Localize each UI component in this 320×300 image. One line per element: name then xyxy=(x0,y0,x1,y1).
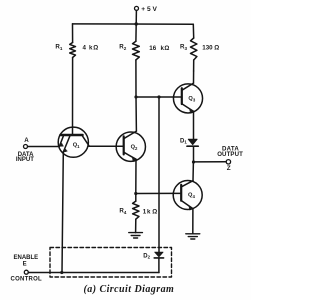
transistor Q3 (pull-up) xyxy=(173,83,202,113)
wire: R1 to Q1 base xyxy=(72,58,74,136)
wire: output node to terminal Z xyxy=(194,161,227,163)
svg-text:CONTROL: CONTROL xyxy=(11,277,42,283)
svg-text:OUTPUT: OUTPUT xyxy=(217,151,243,158)
svg-text:Q4: Q4 xyxy=(188,193,195,199)
input terminal A xyxy=(24,145,28,149)
wire: +5V terminal to rail xyxy=(135,11,137,25)
wire: rail to R2 xyxy=(135,24,137,41)
svg-text:Q2: Q2 xyxy=(131,144,138,150)
resistor R3 xyxy=(191,38,197,60)
wire: Q2 emitter down to R4 node xyxy=(135,159,137,193)
node: R2/Q2/Q3 base junction xyxy=(134,95,137,98)
svg-text:INPUT: INPUT xyxy=(16,157,34,163)
wire: R4 to ground xyxy=(135,219,137,232)
wire: Q1 second emitter down to enable line xyxy=(62,152,63,273)
resistor R1 xyxy=(70,43,76,58)
wire: D2 to enable line xyxy=(158,258,160,273)
svg-text:E: E xyxy=(23,262,27,268)
transistor Q4 (pull-down) xyxy=(173,181,202,211)
svg-text:A: A xyxy=(24,137,29,144)
svg-text:ENABLE: ENABLE xyxy=(14,255,39,261)
node: output junction xyxy=(192,160,195,163)
wire: top +5V rail xyxy=(73,23,194,25)
svg-text:16kΩ: 16kΩ xyxy=(149,45,169,52)
output terminal Z xyxy=(226,160,230,164)
wire: rail to R1 xyxy=(72,24,74,43)
diode D1 xyxy=(187,139,198,146)
dashed enable box xyxy=(50,248,172,278)
svg-text:D2: D2 xyxy=(143,253,150,259)
wire: rail to R3 xyxy=(192,24,194,38)
svg-text:1kΩ: 1kΩ xyxy=(143,208,158,215)
wire: D1 to output node xyxy=(193,146,195,162)
svg-text:Z: Z xyxy=(227,165,231,172)
+5V supply terminal xyxy=(135,6,139,10)
svg-text:R2: R2 xyxy=(119,43,126,51)
wire: enable line xyxy=(28,272,159,274)
ground (below Q4) xyxy=(186,234,200,239)
resistor R2 xyxy=(133,41,140,60)
wire: Q1 collector to Q2 base xyxy=(89,145,116,147)
wire: node to Q4 base xyxy=(136,192,174,194)
wire: Q2 collector up to node xyxy=(135,97,137,131)
node: enable / Q1 emitter junction xyxy=(60,271,63,274)
svg-text:130Ω: 130Ω xyxy=(202,45,219,52)
node: R4 / Q4 base junction xyxy=(134,192,137,195)
transistor Q2 (phase splitter) xyxy=(116,131,145,161)
svg-text:(a) Circuit Diagram: (a) Circuit Diagram xyxy=(84,284,175,295)
svg-text:R1: R1 xyxy=(55,44,62,52)
wire: Q3 emitter to D1 xyxy=(193,111,195,139)
wire: R2 to node xyxy=(135,60,137,97)
wire: output node down to Q4 collector xyxy=(192,162,194,181)
wire: node down to D2 xyxy=(158,97,160,252)
wire: Q4 emitter to ground xyxy=(192,209,194,234)
wire: R3 to Q3 collector xyxy=(193,60,195,71)
resistor R4 xyxy=(133,201,139,219)
svg-text:4kΩ: 4kΩ xyxy=(83,45,99,52)
ground (below R4) xyxy=(129,233,143,238)
svg-text:Q3: Q3 xyxy=(188,96,195,102)
svg-text:Q1: Q1 xyxy=(73,142,80,148)
svg-text:D1: D1 xyxy=(180,138,187,144)
wire: node to R4 xyxy=(135,194,137,202)
svg-text:R4: R4 xyxy=(119,208,126,216)
wire: A to Q1 emitter xyxy=(28,146,60,148)
enable terminal E xyxy=(24,270,28,274)
svg-text:+ 5 V: + 5 V xyxy=(141,6,157,13)
svg-text:R3: R3 xyxy=(180,43,187,51)
diode D2 xyxy=(154,252,163,258)
transistor Q1 (two-emitter input) xyxy=(58,127,89,157)
wire: node to Q3 base xyxy=(136,96,174,98)
wire: Q3 collector up to R3 xyxy=(193,71,195,83)
node: D2 branch junction xyxy=(157,95,160,98)
node: +5V rail junction xyxy=(135,22,138,25)
